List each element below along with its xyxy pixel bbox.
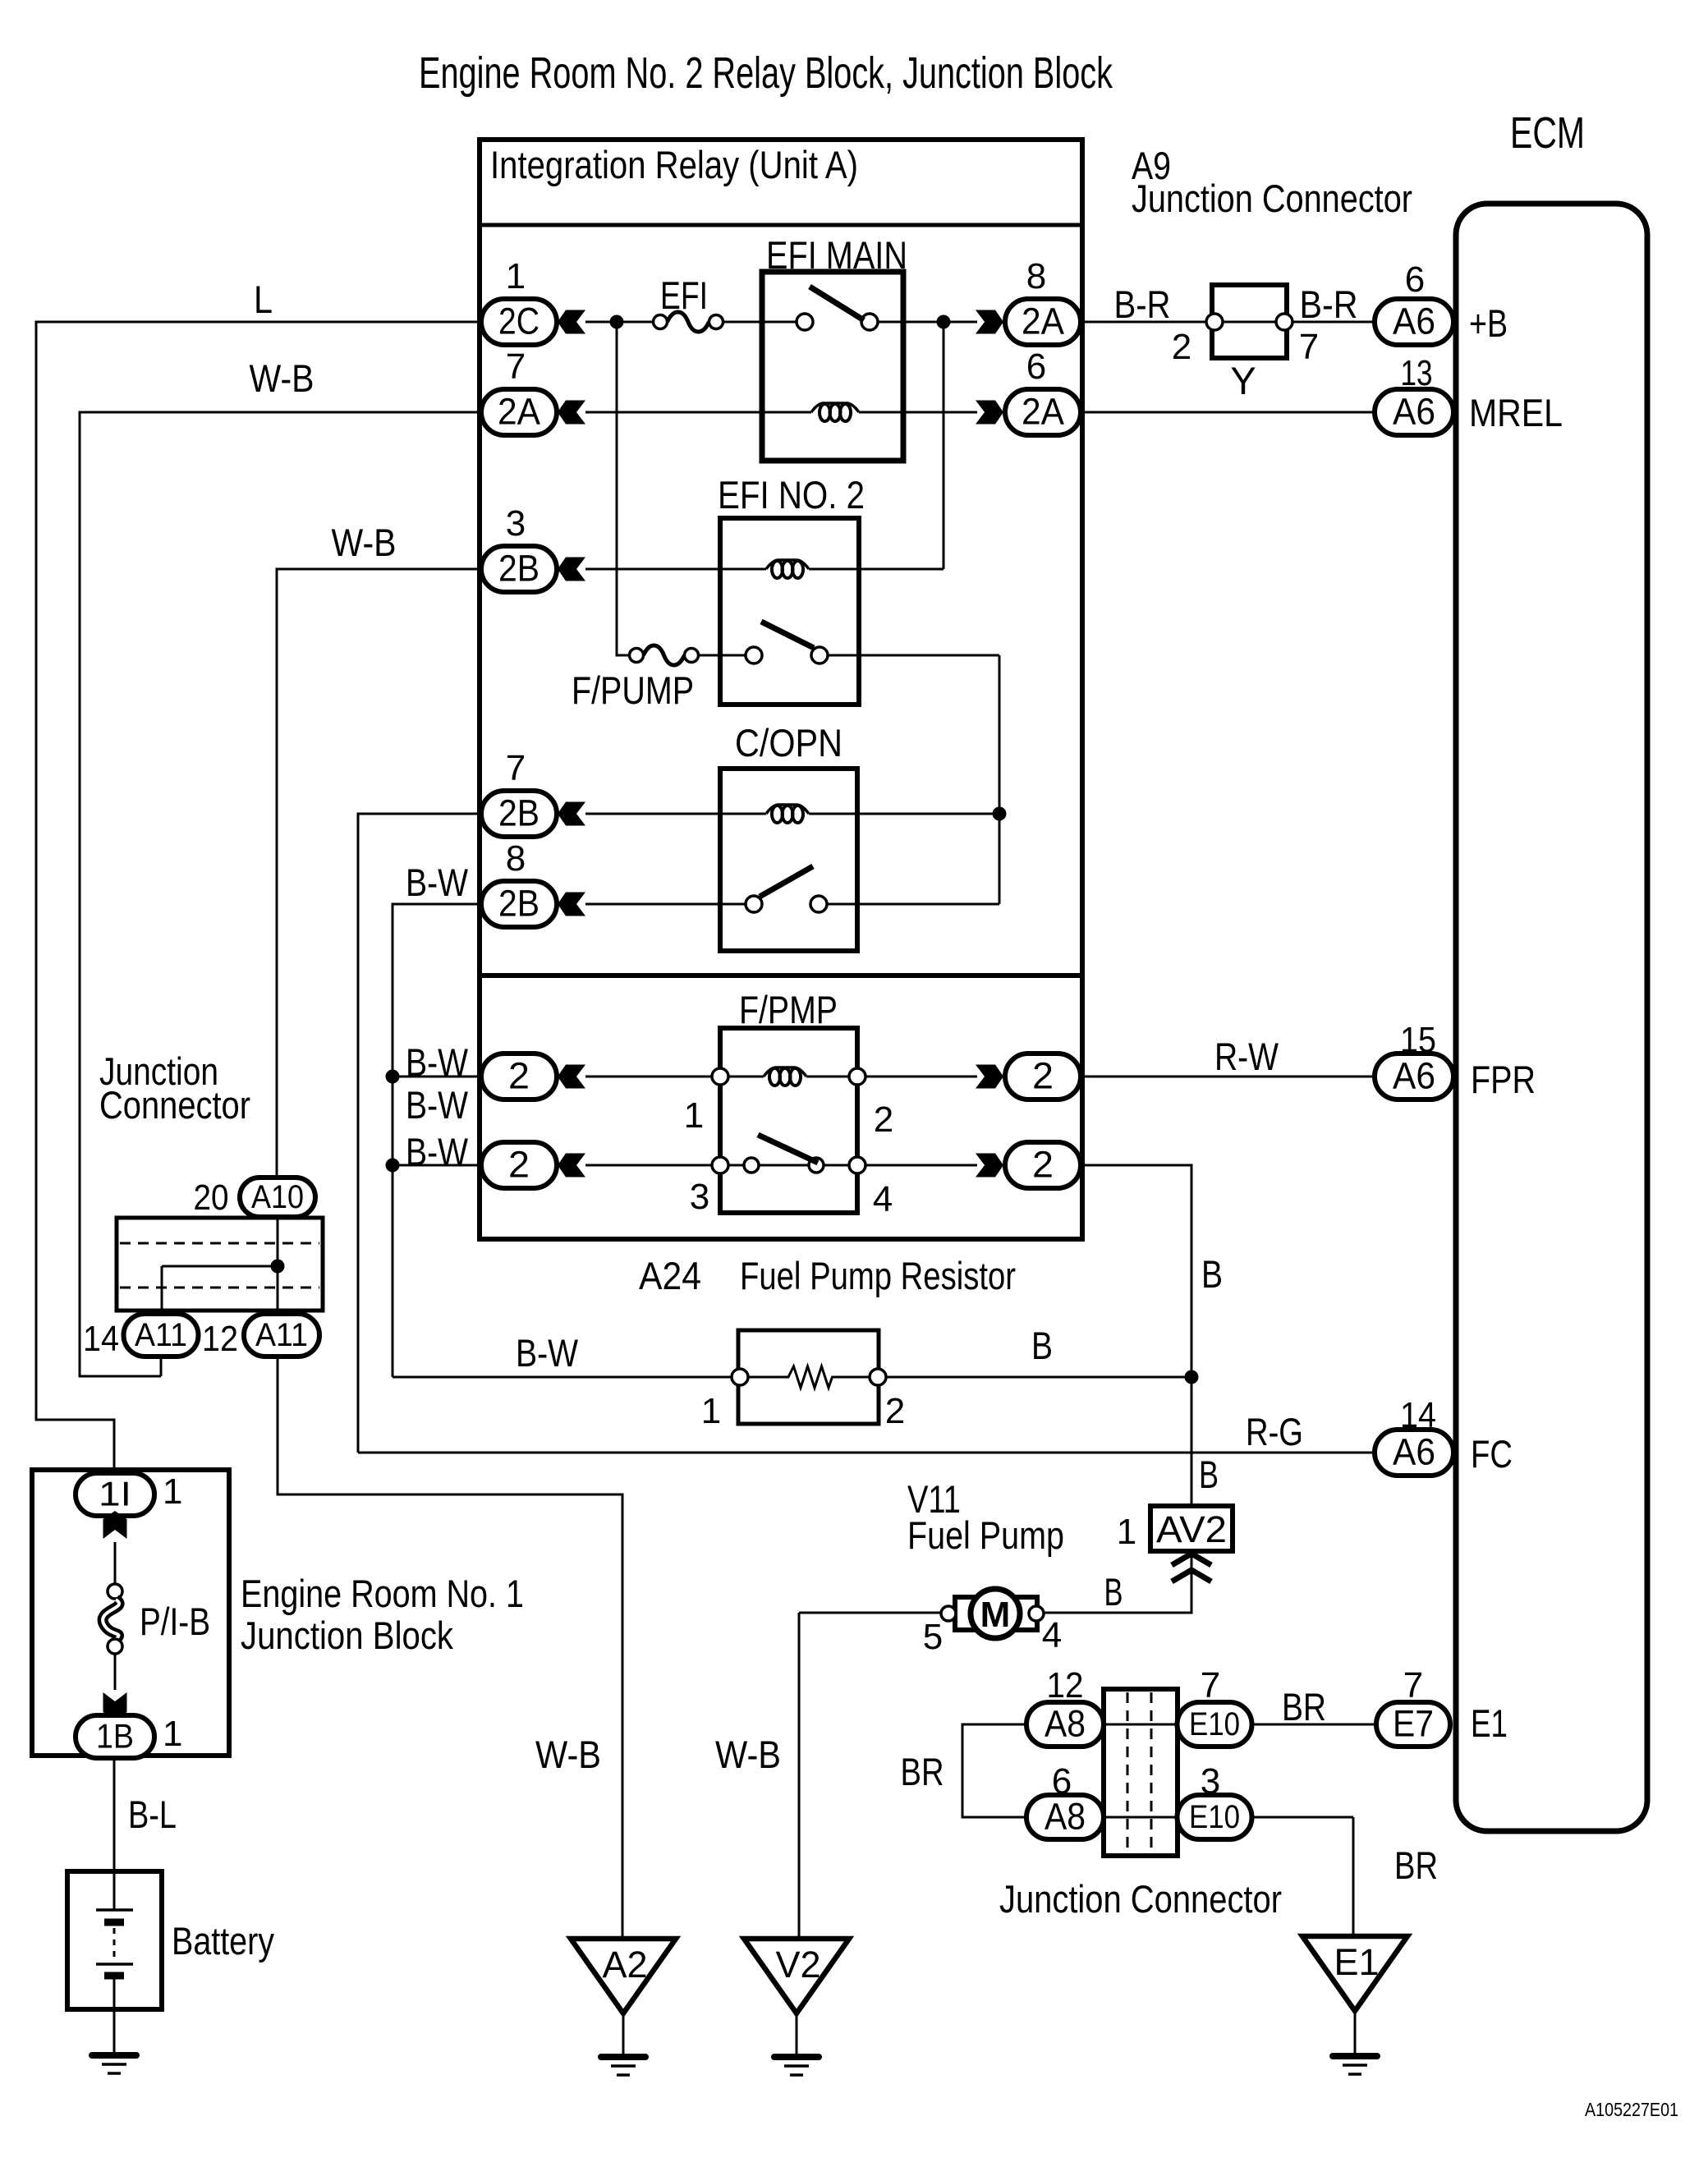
svg-text:M: M xyxy=(980,1595,1011,1635)
EFI NO.2 switch contacts xyxy=(746,647,762,663)
Engine Room No.1 junction block box xyxy=(32,1470,229,1756)
svg-text:A6: A6 xyxy=(1393,300,1435,342)
wire row8 through F/PMP switch xyxy=(585,1164,977,1167)
svg-text:E1: E1 xyxy=(1334,1941,1379,1983)
svg-text:AV2: AV2 xyxy=(1156,1508,1227,1550)
svg-text:2A: 2A xyxy=(1022,300,1064,342)
svg-text:6: 6 xyxy=(1405,259,1425,300)
svg-text:Fuel Pump Resistor: Fuel Pump Resistor xyxy=(740,1254,1016,1297)
wire EFI NO.2 coil to row1 node xyxy=(809,322,944,569)
svg-text:A11: A11 xyxy=(135,1317,187,1353)
svg-text:B-W: B-W xyxy=(406,1040,469,1084)
svg-text:C/OPN: C/OPN xyxy=(735,721,843,764)
battery cells xyxy=(113,1871,116,1910)
junction connector box (A10/A11) xyxy=(117,1218,323,1311)
wires through junction box xyxy=(1104,1724,1178,1817)
wire bus to oval row7 xyxy=(393,1076,481,1078)
wire resistor to B node xyxy=(886,1376,1191,1379)
wire EFI NO.2 switch output down xyxy=(828,655,999,904)
wire 2B pin3 to EFI NO.2 coil xyxy=(585,568,766,571)
wire A11 pin14 stub xyxy=(160,1357,163,1376)
svg-text:2: 2 xyxy=(508,1143,530,1185)
C/OPN switch blade xyxy=(760,866,813,897)
wire AV2 to fuel pump xyxy=(1043,1551,1191,1613)
svg-text:BR: BR xyxy=(901,1750,944,1793)
svg-text:1: 1 xyxy=(506,256,526,296)
svg-text:7: 7 xyxy=(1299,327,1319,367)
relay C/OPN box xyxy=(720,769,857,951)
svg-text:R-G: R-G xyxy=(1246,1410,1303,1453)
connector oval 1I xyxy=(76,1473,154,1516)
battery box xyxy=(67,1871,162,2009)
wire node to F/PUMP fuse xyxy=(617,322,629,655)
svg-text:P/I-B: P/I-B xyxy=(140,1600,210,1643)
svg-text:A10: A10 xyxy=(251,1179,304,1215)
wire row1 fuse segment xyxy=(585,321,653,324)
connector oval E10 pin3 xyxy=(1178,1795,1252,1839)
wire EFI MAIN switch output xyxy=(878,321,977,324)
connector oval 2 row8 (left) xyxy=(481,1142,557,1188)
svg-text:Integration Relay (Unit A): Integration Relay (Unit A) xyxy=(490,143,858,186)
connector oval 2 row7 (left) xyxy=(481,1054,557,1099)
EFI NO.2 switch blade xyxy=(761,622,814,648)
svg-text:6: 6 xyxy=(1026,347,1046,387)
svg-text:Junction Block: Junction Block xyxy=(241,1614,453,1657)
ECM box xyxy=(1456,204,1647,1831)
junction connector box (A8/E10) xyxy=(1104,1689,1178,1856)
svg-text:A2: A2 xyxy=(602,1944,647,1985)
wire 2B pin7 to C/OPN coil xyxy=(585,813,766,815)
connector oval E10 pin7 xyxy=(1178,1702,1252,1747)
svg-text:2B: 2B xyxy=(498,792,539,833)
svg-text:1B: 1B xyxy=(96,1716,134,1755)
wire fuse to EFI MAIN switch xyxy=(723,321,797,324)
svg-text:7: 7 xyxy=(506,748,526,788)
connector oval E7 xyxy=(1376,1702,1450,1747)
svg-text:E1: E1 xyxy=(1471,1701,1508,1745)
ground point V2 xyxy=(744,1939,849,2013)
wire F/PMP coil to right oval xyxy=(806,1076,977,1078)
resistor element xyxy=(748,1366,870,1388)
wire L : battery feed to 2C pin1 xyxy=(36,322,481,1473)
junction connector Y box xyxy=(1212,285,1287,358)
svg-text:B-W: B-W xyxy=(406,1083,469,1127)
svg-text:Engine Room No. 2 Relay Block,: Engine Room No. 2 Relay Block, Junction … xyxy=(419,48,1113,98)
integration relay outer box xyxy=(480,140,1082,1239)
svg-text:EFI NO. 2: EFI NO. 2 xyxy=(718,473,865,516)
wire 1B to battery xyxy=(113,1758,116,1871)
svg-text:8: 8 xyxy=(1026,256,1046,296)
wire bus to oval row8 xyxy=(393,1164,481,1167)
svg-text:2: 2 xyxy=(508,1054,530,1096)
wire 2A pin8 to junction connector Y xyxy=(1081,321,1206,324)
connector oval A11 pin12 xyxy=(244,1314,319,1357)
svg-text:7: 7 xyxy=(506,347,526,387)
node: dot C/OPN coil feed xyxy=(993,807,1007,821)
node: dot in junction box xyxy=(271,1260,285,1274)
svg-text:1: 1 xyxy=(1117,1512,1136,1552)
svg-text:B: B xyxy=(1104,1570,1123,1614)
F/PMP relay coil xyxy=(764,1067,806,1077)
svg-text:2B: 2B xyxy=(498,547,539,589)
F/PMP switch contacts row8 xyxy=(712,1157,728,1173)
connector oval 2 row8 (right) xyxy=(976,1154,1003,1178)
svg-text:Connector: Connector xyxy=(99,1083,250,1127)
wire fuel pump to V2 line xyxy=(799,1613,941,1939)
svg-text:2: 2 xyxy=(885,1391,905,1431)
EFI NO.2 relay coil xyxy=(766,560,809,569)
svg-text:A6: A6 xyxy=(1393,1054,1435,1096)
C/OPN switch contacts xyxy=(746,896,762,912)
svg-text:1I: 1I xyxy=(99,1474,131,1513)
svg-text:3: 3 xyxy=(506,503,526,544)
wire B-W bus to resistor xyxy=(393,1376,732,1379)
EFI MAIN relay coil xyxy=(811,403,859,412)
wire 2B pin8 left down (B-W bus) xyxy=(393,904,481,1377)
svg-text:A6: A6 xyxy=(1393,390,1435,432)
svg-text:BR: BR xyxy=(1394,1843,1438,1887)
wire row7 oval to F/PMP coil xyxy=(585,1076,764,1078)
svg-text:A8: A8 xyxy=(1045,1795,1086,1837)
svg-text:L: L xyxy=(254,278,273,321)
svg-text:4: 4 xyxy=(873,1179,893,1219)
svg-text:B: B xyxy=(1199,1453,1219,1496)
fuel pump motor M xyxy=(955,1597,975,1630)
svg-text:3: 3 xyxy=(690,1177,709,1217)
ground point A2 xyxy=(571,1939,676,2013)
svg-text:12: 12 xyxy=(202,1319,238,1359)
ground point E1 xyxy=(1302,1936,1407,2011)
connector AV2 box xyxy=(1150,1506,1233,1551)
svg-text:+B: +B xyxy=(1469,301,1508,345)
svg-text:7: 7 xyxy=(1403,1665,1423,1705)
svg-text:MREL: MREL xyxy=(1469,391,1563,434)
svg-text:Junction Connector: Junction Connector xyxy=(999,1877,1282,1921)
svg-text:W-B: W-B xyxy=(535,1733,601,1776)
svg-text:2A: 2A xyxy=(498,390,540,432)
wire row2 to coil xyxy=(585,411,811,414)
EFI MAIN switch contacts xyxy=(797,314,813,330)
svg-text:B-W: B-W xyxy=(406,1130,469,1173)
node: junction dot before EFI fuse xyxy=(610,315,624,329)
svg-text:1: 1 xyxy=(701,1391,721,1431)
wire W-B : 2A pin7 ground return xyxy=(80,412,481,1376)
F/PMP box edge contacts row7 xyxy=(712,1068,728,1085)
svg-text:B-W: B-W xyxy=(516,1331,579,1375)
relay EFI MAIN box xyxy=(762,272,903,461)
svg-text:ECM: ECM xyxy=(1510,108,1585,158)
svg-text:FC: FC xyxy=(1471,1432,1513,1476)
wire Y to ECM +B xyxy=(1292,321,1375,324)
relay F/PMP box xyxy=(720,1028,857,1213)
arrow up into 1I xyxy=(103,1511,127,1539)
svg-text:14: 14 xyxy=(83,1319,119,1359)
F/PMP switch blade xyxy=(758,1135,818,1163)
connector oval A10 xyxy=(240,1178,315,1217)
svg-text:2B: 2B xyxy=(498,882,539,924)
svg-text:F/PMP: F/PMP xyxy=(739,988,838,1031)
wire row8 to fuel pump branch xyxy=(1081,1165,1191,1506)
wire 2B pin8 to C/OPN switch xyxy=(585,903,746,906)
svg-text:1: 1 xyxy=(163,1471,182,1512)
connector oval A8 pin12 xyxy=(1026,1702,1104,1747)
svg-text:Fuel Pump: Fuel Pump xyxy=(907,1513,1064,1557)
ground battery xyxy=(92,2052,136,2059)
svg-text:Junction Connector: Junction Connector xyxy=(1132,177,1412,220)
wire through Y xyxy=(1223,321,1276,324)
connector oval A8 pin6 xyxy=(1026,1795,1104,1839)
svg-text:7: 7 xyxy=(1201,1665,1220,1705)
svg-text:EFI: EFI xyxy=(660,273,708,317)
connector oval A11 pin14 xyxy=(124,1314,199,1357)
node: B-W bus dot row7 xyxy=(386,1070,400,1084)
svg-text:2A: 2A xyxy=(1022,390,1064,432)
svg-text:B: B xyxy=(1031,1324,1053,1367)
svg-text:E10: E10 xyxy=(1189,1706,1240,1742)
svg-text:F/PUMP: F/PUMP xyxy=(572,668,694,712)
svg-text:2: 2 xyxy=(1032,1054,1054,1096)
svg-text:12: 12 xyxy=(1047,1665,1084,1705)
wire C/OPN coil right xyxy=(809,813,999,815)
svg-text:Y: Y xyxy=(1230,359,1256,402)
node: junction dot after EFI MAIN contact xyxy=(937,315,951,329)
svg-text:BR: BR xyxy=(1282,1685,1326,1728)
svg-text:2: 2 xyxy=(874,1099,893,1140)
svg-text:W-B: W-B xyxy=(250,356,315,400)
wire fuse to EFI NO.2 switch xyxy=(699,654,746,657)
svg-text:Battery: Battery xyxy=(172,1919,274,1963)
svg-text:2: 2 xyxy=(1172,327,1191,367)
svg-text:A11: A11 xyxy=(255,1317,308,1353)
svg-text:E7: E7 xyxy=(1393,1702,1434,1744)
svg-text:1: 1 xyxy=(163,1714,182,1754)
wire A11 pin12 to A2 ground line xyxy=(278,1357,622,1939)
node: B-W bus dot row8 xyxy=(386,1159,400,1173)
svg-text:5: 5 xyxy=(923,1617,943,1657)
svg-text:20: 20 xyxy=(194,1178,229,1218)
integration relay section divider xyxy=(480,973,1082,978)
connector oval 1B xyxy=(76,1715,154,1758)
svg-text:B-R: B-R xyxy=(1114,282,1171,326)
svg-text:A24: A24 xyxy=(639,1254,701,1297)
svg-text:W-B: W-B xyxy=(715,1733,781,1776)
svg-text:4: 4 xyxy=(1042,1615,1062,1655)
arrow down into 1B xyxy=(103,1692,127,1720)
connector oval 2 row7 (right) xyxy=(976,1065,1003,1089)
wire branch to A11 pin14 xyxy=(162,1266,278,1314)
svg-text:1: 1 xyxy=(684,1095,704,1136)
wire row7 to ECM FPR xyxy=(1081,1076,1376,1078)
fuse F/PUMP xyxy=(644,645,685,665)
wire A10 through box to A11 pin12 xyxy=(277,1217,279,1314)
svg-text:W-B: W-B xyxy=(332,521,397,564)
svg-text:FPR: FPR xyxy=(1471,1058,1536,1101)
integration relay header line xyxy=(480,223,1082,227)
AV2 mating chevrons xyxy=(1172,1554,1211,1565)
junction box dashed rows xyxy=(120,1243,319,1288)
svg-text:V2: V2 xyxy=(775,1944,820,1985)
EFI MAIN switch blade xyxy=(810,287,864,320)
svg-text:Engine Room No. 1: Engine Room No. 1 xyxy=(241,1572,524,1615)
svg-text:8: 8 xyxy=(506,838,526,879)
svg-text:E10: E10 xyxy=(1189,1799,1240,1835)
resistor A24 box xyxy=(738,1330,879,1424)
svg-text:B: B xyxy=(1201,1252,1223,1296)
wire E10 pin7 to E7 xyxy=(1252,1724,1376,1726)
wire C/OPN switch to feed xyxy=(827,903,999,906)
wire E10 pin3 to E1 xyxy=(1252,1817,1353,1936)
wire coil to 2A pin6 xyxy=(859,411,977,414)
svg-text:R-W: R-W xyxy=(1214,1035,1279,1078)
svg-text:EFI MAIN: EFI MAIN xyxy=(766,233,907,277)
relay EFI NO.2 box xyxy=(720,518,859,705)
wire 2A pin6 to MREL xyxy=(1081,411,1375,414)
svg-text:B-L: B-L xyxy=(128,1793,177,1836)
wire fusible link down xyxy=(114,1654,117,1690)
svg-text:B-W: B-W xyxy=(406,861,469,904)
svg-text:B-R: B-R xyxy=(1300,282,1358,326)
wire 2B pin7 left to FC line xyxy=(358,814,481,1453)
wire A8 loop BR xyxy=(962,1724,1026,1817)
svg-text:A6: A6 xyxy=(1393,1430,1435,1472)
svg-text:2C: 2C xyxy=(498,300,539,342)
svg-text:A105227E01: A105227E01 xyxy=(1585,2099,1678,2120)
fuse EFI xyxy=(668,312,709,332)
svg-text:A8: A8 xyxy=(1045,1702,1086,1744)
svg-text:2: 2 xyxy=(1032,1143,1054,1185)
node: dot B junction xyxy=(1185,1370,1199,1384)
wire C/OPN return to ECM FC xyxy=(358,1452,1376,1454)
wire W-B : 2B pin3 down to A10 xyxy=(277,569,481,1178)
C/OPN relay coil xyxy=(766,805,809,814)
wire to fusible link xyxy=(114,1542,117,1584)
fusible link P/I-B xyxy=(108,1584,122,1599)
